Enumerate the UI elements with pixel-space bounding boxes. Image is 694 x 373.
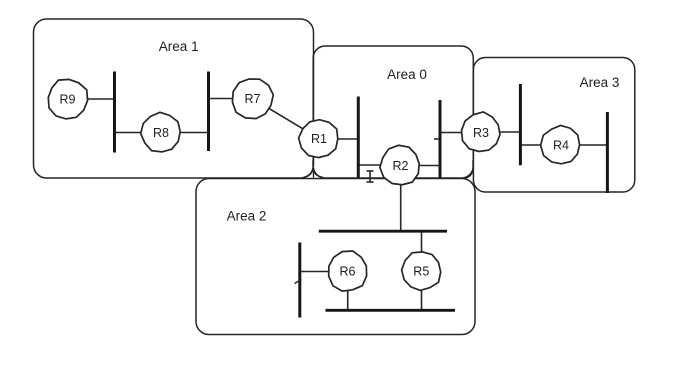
stub tick on segment N7 (295, 280, 302, 284)
ethernet segment N2 (207, 72, 210, 152)
router R8 (141, 112, 181, 152)
wire segment N4 to R3 (440, 132, 481, 134)
wire R1 to segment N3 (319, 138, 358, 140)
router R6 (329, 251, 367, 291)
svg-text:R5: R5 (413, 265, 429, 279)
svg-text:R4: R4 (553, 139, 569, 153)
ethernet segment N4 (439, 100, 442, 178)
svg-text:Area 2: Area 2 (227, 209, 267, 224)
wire R8 to segment N2 (180, 132, 208, 134)
svg-text:R3: R3 (473, 126, 489, 140)
router R9 (48, 79, 87, 119)
svg-text:Area 0: Area 0 (387, 67, 427, 82)
wire segment N2 to R7 (210, 98, 234, 100)
ethernet segment N3 (357, 97, 360, 178)
router R2 (380, 145, 419, 184)
ethernet segment N6 (606, 112, 609, 193)
area 2 box (196, 179, 475, 335)
wire segment N7 to R6 (300, 271, 348, 273)
ethernet segment N7 (298, 243, 301, 318)
area 3 box (473, 58, 634, 193)
wire R9 to segment N1 (87, 98, 114, 100)
wire segment N3 to R2 (358, 164, 400, 166)
node fan under R1 (304, 160, 323, 178)
wire R2 down to area 2 bus (400, 166, 402, 231)
wire R7 to R1 (253, 99, 320, 139)
node fan under R3 (465, 160, 474, 178)
ethernet segment N5 (519, 84, 522, 165)
wire R5 up to area 2 top bus (421, 231, 423, 271)
wire R4 to segment N6 (561, 144, 607, 146)
svg-text:Area 1: Area 1 (159, 39, 199, 54)
svg-text:R8: R8 (153, 126, 169, 140)
wire segment N5 to R4 (521, 144, 561, 146)
ethernet segment N8 top bus (319, 230, 447, 233)
ethernet segment N9 bottom bus (326, 309, 456, 312)
stub tick on segment N4 (434, 138, 439, 140)
svg-text:R7: R7 (245, 92, 261, 106)
router R4 (541, 125, 580, 163)
svg-text:Area 3: Area 3 (580, 75, 620, 90)
wire R5 down to area 2 bottom bus (421, 271, 423, 310)
wire R2 to segment N4 (401, 165, 440, 167)
router R3 (462, 112, 501, 152)
wire R6 down to area 2 bottom bus (347, 271, 349, 310)
wire segment N1 to R8 (116, 132, 143, 134)
wire R3 to segment N5 (481, 131, 520, 133)
router R1 (299, 120, 338, 158)
svg-text:R9: R9 (60, 93, 76, 107)
router R7 (232, 79, 273, 119)
svg-text:R6: R6 (340, 265, 356, 279)
area 0 box (313, 46, 473, 178)
virtual link symbol on R1-R2 network (367, 171, 374, 182)
svg-text:R2: R2 (393, 159, 409, 173)
ethernet segment N1 (113, 72, 116, 153)
area 1 box (34, 19, 314, 178)
svg-text:R1: R1 (311, 132, 327, 146)
router R5 (402, 252, 441, 291)
